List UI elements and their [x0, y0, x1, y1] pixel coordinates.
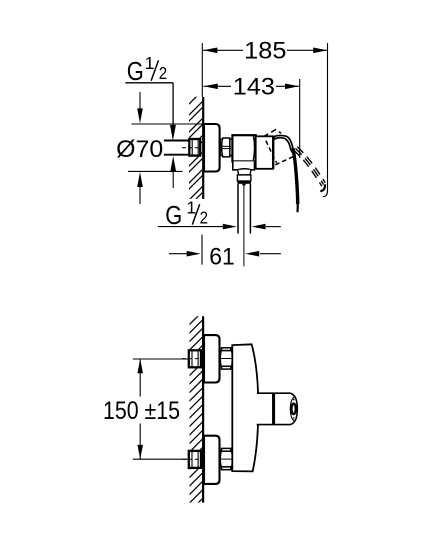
handle knob end cap (front view): [274, 393, 297, 424]
faucet body (side view): [232, 135, 255, 161]
dimension 61 left arrow: [169, 253, 188, 255]
lower nut centerline (dashed): [182, 458, 201, 460]
dimension 150 lower arrowhead: [137, 445, 143, 459]
dimension 61 left extension line: [201, 235, 203, 265]
svg-text:1: 1: [145, 53, 155, 73]
faucet body (front view): [232, 344, 258, 471]
svg-text:G: G: [165, 200, 182, 230]
outlet housing below body: [233, 161, 255, 169]
dimension 150 lower extension line: [133, 458, 188, 460]
dimension 143 right extension line: [299, 79, 301, 158]
lower escutcheon (front view): [204, 436, 220, 484]
label G 1/2 (top) leader line: [125, 82, 173, 84]
dimension Ø70 bottom arrow: [139, 187, 141, 205]
dimension Ø70 upper extension line: [132, 123, 205, 125]
handle lever blade (solid): [293, 148, 298, 204]
upper wall nut (front view): [189, 350, 201, 367]
dimension 185 right extension line: [327, 43, 329, 192]
wall hatch (side view): [184, 87, 206, 211]
wall hatch (front view): [184, 308, 206, 517]
svg-text:150 ±15: 150 ±15: [103, 397, 180, 425]
svg-text:G: G: [127, 56, 144, 86]
wall line (front view): [202, 316, 204, 502]
hose nut shadow band: [237, 181, 251, 184]
lower wall nut (front view): [189, 451, 201, 468]
upper nut centerline (dashed): [182, 358, 201, 360]
svg-text:2: 2: [200, 208, 208, 228]
knob screw dot top: [293, 399, 295, 401]
svg-text:1: 1: [186, 198, 196, 218]
handle raised position (dashed): [263, 130, 325, 192]
hose connection lines: [237, 184, 239, 234]
pipe centerline (dashed): [182, 147, 200, 149]
dimension Ø70 top arrow: [139, 92, 141, 110]
hose nut: [237, 175, 251, 181]
knob screw dot bottom: [293, 417, 295, 419]
escutcheon (side view): [204, 124, 220, 172]
body cap edge curve: [253, 136, 254, 160]
hose taper triangle: [242, 184, 247, 187]
label G 1/2 (bottom) arrow to pipe: [172, 170, 174, 188]
cartridge housing (side view): [256, 136, 273, 169]
dimension 61 right arrow: [260, 253, 281, 255]
lower S-union (front view): [220, 448, 232, 469]
S-union nut (side view): [220, 138, 232, 157]
svg-text:61: 61: [209, 245, 235, 271]
dimension 143 arrowheads: [204, 84, 218, 90]
dimension 150 upper arrowhead: [137, 359, 143, 373]
dimension 185 left extension line: [201, 43, 203, 97]
upper escutcheon (front view): [204, 335, 220, 382]
svg-text:185: 185: [244, 39, 286, 65]
dimension 185 arrowheads: [203, 48, 217, 54]
svg-text:2: 2: [159, 63, 167, 83]
svg-text:Ø70: Ø70: [116, 137, 163, 163]
handle knob divider line: [272, 393, 274, 425]
label G 1/2 (bottom) leader line with arrow: [158, 226, 224, 228]
svg-text:143: 143: [233, 75, 275, 101]
dimension 150 upper extension line: [133, 358, 188, 360]
wall line (side view): [202, 97, 204, 199]
upper S-union (front view): [220, 348, 232, 369]
knob end face ellipse: [290, 396, 294, 421]
dimension 185 line: [203, 49, 243, 51]
inlet union nut behind wall (side view): [189, 139, 200, 156]
dimension Ø70 lower extension line: [128, 170, 183, 172]
handle lever hub (solid): [274, 136, 294, 155]
outlet taper: [238, 170, 251, 175]
dimension 143 line: [204, 85, 232, 87]
label G 1/2 (bottom) right arrow: [266, 226, 281, 228]
knob end dark ellipse: [291, 404, 295, 414]
hose centerline: [243, 186, 245, 266]
label G 1/2 (top) arrowhead: [170, 125, 176, 141]
dimension 150 line upper part: [139, 359, 141, 397]
dimension 150 line lower part: [139, 424, 141, 460]
handle knob cylinder (front view): [257, 393, 273, 424]
inlet pipe (side view): [164, 140, 190, 155]
